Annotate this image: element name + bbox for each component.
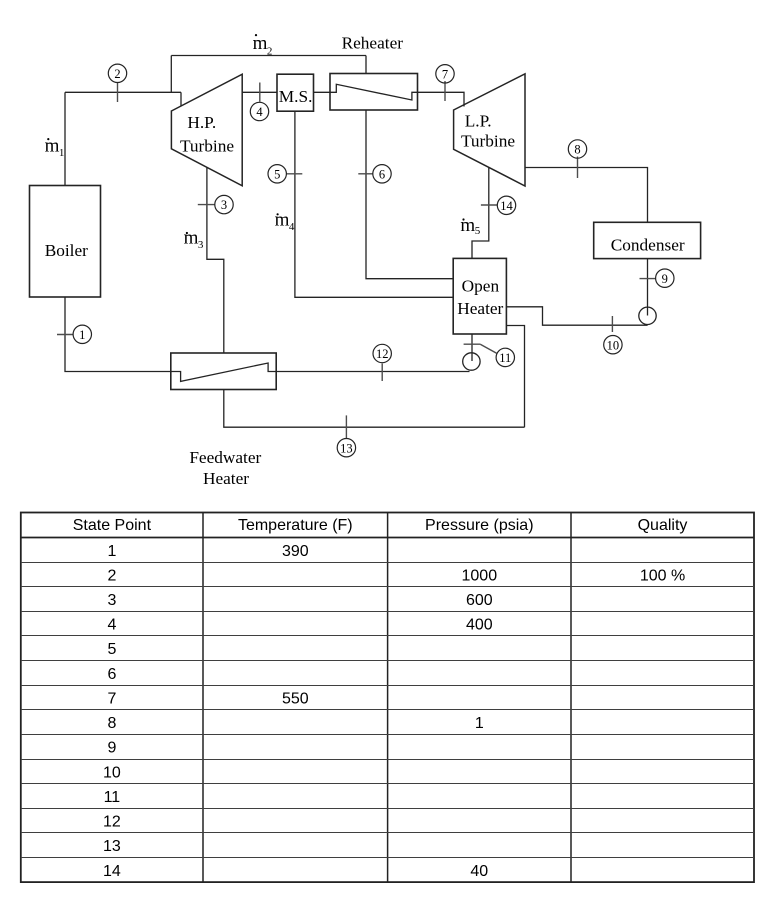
svg-text:3: 3 <box>107 592 116 609</box>
svg-text:M.S.: M.S. <box>279 87 313 106</box>
table row 10 <box>103 764 121 781</box>
svg-text:390: 390 <box>282 543 309 560</box>
svg-text:10: 10 <box>607 338 620 352</box>
svg-text:12: 12 <box>376 347 389 361</box>
node 6 <box>358 165 391 183</box>
wire LP exit to condenser <box>525 168 648 223</box>
table row lines <box>21 563 754 858</box>
node 14 <box>481 196 516 214</box>
wire open heater lower right to down-leg <box>506 326 524 428</box>
svg-text:14: 14 <box>103 863 121 880</box>
table row 12 <box>103 814 121 831</box>
wire HP turbine inlet stub <box>180 92 182 106</box>
feedwater heater <box>171 353 276 488</box>
table row 14 <box>103 863 488 880</box>
table row 3 <box>107 592 492 609</box>
svg-text:600: 600 <box>466 592 493 609</box>
svg-text:m: m <box>275 210 290 231</box>
table row 1 <box>107 543 308 560</box>
wire feedwater heater to pump P1 <box>276 371 469 373</box>
node 12 <box>373 344 391 381</box>
node 11 <box>464 344 515 366</box>
node 3 <box>198 195 233 213</box>
svg-text:m: m <box>184 228 199 249</box>
table header row <box>73 517 688 534</box>
wire reheater exit to LP <box>418 92 465 106</box>
svg-text:m: m <box>253 33 268 54</box>
wire m5 (LP bleed to open heater) <box>472 167 489 258</box>
svg-text:6: 6 <box>107 666 116 683</box>
svg-text:1: 1 <box>107 543 116 560</box>
table row 13 <box>103 838 121 855</box>
svg-text:Feedwater: Feedwater <box>189 448 261 467</box>
svg-text:L.P.: L.P. <box>465 111 492 130</box>
svg-text:9: 9 <box>662 272 668 286</box>
label m-dot-3 <box>184 228 204 251</box>
svg-text:Reheater: Reheater <box>342 34 404 53</box>
svg-text:6: 6 <box>379 167 385 181</box>
svg-text:40: 40 <box>470 863 488 880</box>
svg-text:Heater: Heater <box>203 469 249 488</box>
svg-text:2: 2 <box>107 568 116 585</box>
LP turbine U2 <box>454 74 525 186</box>
svg-text:Temperature (F): Temperature (F) <box>238 517 353 534</box>
svg-text:5: 5 <box>475 225 481 237</box>
table row 2 <box>107 568 685 585</box>
svg-text:2: 2 <box>267 46 273 58</box>
node 2 <box>108 64 126 102</box>
wire boiler feed <box>65 297 171 372</box>
svg-text:11: 11 <box>104 789 121 806</box>
svg-text:4: 4 <box>289 221 295 233</box>
wire condenser drain <box>647 259 649 316</box>
svg-text:1: 1 <box>475 715 484 732</box>
wire reheater drain to open heater <box>366 110 453 279</box>
table outer border <box>21 513 754 883</box>
svg-text:4: 4 <box>107 617 116 634</box>
wire m2 horizontal <box>171 55 366 57</box>
pump P1 (feed pump) <box>463 353 480 370</box>
svg-text:Open: Open <box>462 276 500 295</box>
svg-text:2: 2 <box>114 67 120 81</box>
svg-text:5: 5 <box>274 167 280 181</box>
svg-text:Pressure (psia): Pressure (psia) <box>425 517 533 534</box>
svg-text:Quality: Quality <box>638 517 688 534</box>
table row 8 <box>107 715 483 732</box>
svg-text:Heater: Heater <box>457 299 503 318</box>
svg-text:10: 10 <box>103 764 121 781</box>
label m-dot-5 <box>460 215 480 237</box>
reheater <box>330 34 418 110</box>
svg-text:100 %: 100 % <box>640 568 685 585</box>
node 10 <box>604 316 622 354</box>
node 5 <box>268 165 302 183</box>
svg-text:11: 11 <box>499 351 511 365</box>
wire M.S. to reheater <box>314 91 331 93</box>
table row 7 <box>107 691 308 708</box>
wire top horizontal (node 2 line) <box>65 91 181 93</box>
wire HP exit to M.S. <box>242 91 277 93</box>
svg-text:13: 13 <box>340 441 353 455</box>
HP turbine U1 <box>171 74 242 186</box>
svg-text:3: 3 <box>221 198 227 212</box>
svg-text:12: 12 <box>103 814 121 831</box>
svg-text:5: 5 <box>107 641 116 658</box>
svg-text:550: 550 <box>282 691 309 708</box>
node 8 <box>568 140 586 178</box>
wire m1 vertical (boiler to top line) <box>64 92 66 185</box>
wire m4 (M.S. drain to open heater) <box>295 111 453 297</box>
svg-text:Turbine: Turbine <box>180 137 234 156</box>
wire m3 (HP bleed to feedwater heater) <box>207 167 224 353</box>
svg-text:1: 1 <box>79 328 85 342</box>
node 13 <box>337 415 355 457</box>
table row 9 <box>107 740 116 757</box>
table header underline <box>21 537 754 539</box>
svg-text:7: 7 <box>442 67 448 81</box>
svg-text:8: 8 <box>574 143 580 157</box>
pump P2 (condensate pump) <box>639 307 656 324</box>
moisture separator M.S. <box>277 74 314 111</box>
svg-text:14: 14 <box>500 199 513 213</box>
svg-text:400: 400 <box>466 617 493 634</box>
table row 5 <box>107 641 116 658</box>
boiler <box>30 186 101 298</box>
svg-text:H.P.: H.P. <box>187 113 216 132</box>
svg-text:3: 3 <box>198 239 204 251</box>
svg-text:7: 7 <box>107 691 116 708</box>
svg-text:1: 1 <box>59 147 65 159</box>
svg-text:9: 9 <box>107 740 116 757</box>
svg-text:m: m <box>460 215 475 236</box>
label m-dot-2 <box>253 33 273 58</box>
label m-dot-4 <box>275 210 295 234</box>
svg-text:Boiler: Boiler <box>45 241 88 260</box>
svg-text:4: 4 <box>256 105 263 119</box>
svg-text:1000: 1000 <box>462 568 498 585</box>
condenser <box>594 222 701 258</box>
wire condensate to open heater <box>506 307 647 325</box>
table row 4 <box>107 617 492 634</box>
svg-text:Turbine: Turbine <box>461 132 515 151</box>
wire m2 down-leg <box>170 56 172 93</box>
svg-text:m: m <box>45 136 60 157</box>
label m-dot-1 <box>45 136 65 160</box>
open heater <box>453 258 506 334</box>
table column lines <box>203 513 571 883</box>
wire open heater drain to pump <box>471 334 473 361</box>
wire m2 to reheater top <box>365 56 367 74</box>
svg-text:State Point: State Point <box>73 517 152 534</box>
node 4 <box>250 83 268 121</box>
wire feedwater heater drain (13 line) <box>224 390 525 428</box>
svg-text:13: 13 <box>103 838 121 855</box>
node 9 <box>640 269 675 287</box>
node 1 <box>57 325 92 343</box>
table row 6 <box>107 666 116 683</box>
node 7 <box>436 65 454 101</box>
svg-text:Condenser: Condenser <box>611 236 685 255</box>
table row 11 <box>104 789 121 806</box>
svg-text:8: 8 <box>107 715 116 732</box>
